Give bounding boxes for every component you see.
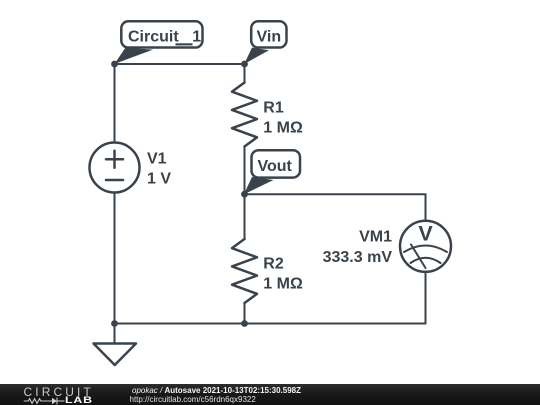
svg-text:R2: R2 — [263, 256, 284, 273]
svg-text:Vout: Vout — [258, 158, 293, 175]
svg-text:333.3 mV: 333.3 mV — [323, 249, 393, 266]
svg-text:1 V: 1 V — [147, 171, 171, 188]
svg-text:V: V — [418, 222, 433, 246]
svg-text:Circuit: Circuit — [128, 28, 179, 45]
svg-text:V1: V1 — [147, 151, 167, 168]
svg-text:1 MΩ: 1 MΩ — [263, 276, 303, 293]
svg-text:1: 1 — [192, 28, 201, 45]
svg-text:VM1: VM1 — [359, 229, 392, 246]
svg-text:1 MΩ: 1 MΩ — [263, 120, 303, 137]
svg-text:R1: R1 — [263, 100, 284, 117]
svg-text:Vin: Vin — [257, 28, 282, 45]
